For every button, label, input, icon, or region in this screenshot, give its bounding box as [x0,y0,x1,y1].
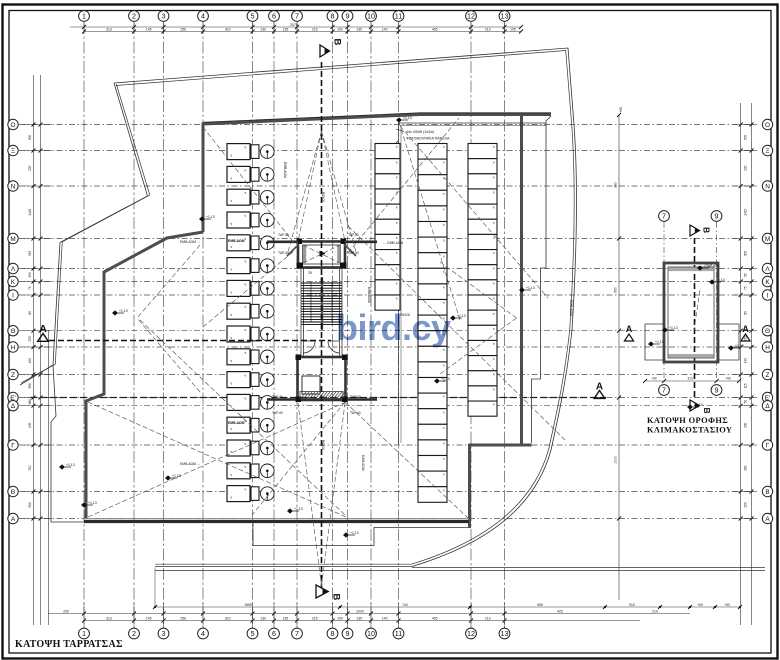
PV panel column C [468,144,497,417]
grid axis E' [8,392,773,402]
small plan drains [648,264,744,351]
svg-text:2000: 2000 [356,609,364,613]
svg-text:145: 145 [146,616,152,620]
small plan grid 9 [711,211,722,396]
PV panel column A [375,144,400,311]
grid axis 7 [292,11,303,639]
svg-text:ΕΜΒ.ΔΩΜ: ΕΜΒ.ΔΩΜ [228,239,245,243]
svg-text:+1.13: +1.13 [119,309,128,313]
svg-text:+90: +90 [725,377,731,381]
svg-text:ΕΜΒ.ΔΩΜ: ΕΜΒ.ΔΩΜ [569,300,573,316]
roof drains [59,116,703,538]
svg-text:+65: +65 [619,107,623,113]
svg-text:305: 305 [744,251,748,257]
svg-text:11: 11 [395,12,402,21]
svg-text:5: 5 [251,12,255,21]
small plan marker A left [624,324,633,341]
svg-text:3: 3 [162,12,166,21]
svg-text:9: 9 [715,388,719,395]
section line B-B vertical [321,62,323,588]
bottom dimension lines [48,603,742,628]
east parapet inner line [532,116,552,443]
svg-text:O: O [765,122,770,129]
svg-text:K: K [765,279,770,286]
svg-text:7: 7 [662,388,666,395]
grid axis 5 [247,11,258,639]
grid axis H [8,342,773,352]
svg-text:50: 50 [744,400,748,404]
svg-text:6: 6 [272,12,276,21]
grid axis 3 [158,11,169,639]
section line A-A horizontal [49,340,331,342]
svg-text:13: 13 [501,629,509,638]
svg-text:405: 405 [432,27,438,31]
svg-text:A: A [626,324,633,334]
svg-text:+1.13: +1.13 [66,463,75,467]
svg-text:200: 200 [63,609,69,613]
grid axis I [8,290,773,300]
svg-text:220: 220 [28,165,32,171]
grid axis M [8,233,773,243]
svg-text:950: 950 [614,287,618,293]
svg-text:680: 680 [28,399,32,405]
small plan marker B top [690,225,712,236]
svg-text:44x 440W (1x2m): 44x 440W (1x2m) [406,130,434,134]
svg-text:135: 135 [356,616,362,620]
svg-text:310: 310 [225,27,231,31]
machine hatch band [300,392,345,399]
svg-text:Ξ: Ξ [11,148,15,155]
grid axis 13 [499,11,510,639]
grid axis 4 [198,11,209,639]
svg-text:← ΕΜΒ.ΔΩΜ: ← ΕΜΒ.ΔΩΜ [383,241,403,245]
svg-text:ΕΜΒ.ΔΩΜ: ΕΜΒ.ΔΩΜ [283,162,287,178]
svg-text:Θ: Θ [765,328,770,335]
svg-text:+1.13: +1.13 [457,314,466,318]
svg-text:7: 7 [295,12,299,21]
svg-text:Λ: Λ [765,266,770,273]
svg-text:Γ: Γ [766,442,770,449]
svg-text:9: 9 [346,629,350,638]
top box pilaster strips [303,246,341,264]
svg-text:500: 500 [28,135,32,141]
small plan inner dash [694,290,700,330]
grid axis Γ [8,440,773,450]
dimension line 1000 right of plan [614,107,624,600]
svg-text:145: 145 [146,27,152,31]
svg-text:740: 740 [402,603,408,607]
lower boundary double line [155,570,765,572]
svg-text:+1.13: +1.13 [88,501,97,505]
lower terrace outline notch [253,521,468,546]
svg-text:213: 213 [485,27,491,31]
svg-text:ΚΛΙΜΑΚΟΣΤΑΣΙΟΥ: ΚΛΙΜΑΚΟΣΤΑΣΙΟΥ [647,426,732,435]
svg-text:+1.13: +1.13 [735,344,744,348]
svg-text:313: 313 [106,616,112,620]
svg-text:ΕΜΒ.ΔΩΜ: ΕΜΒ.ΔΩΜ [367,287,371,303]
svg-text:7: 7 [295,629,299,638]
svg-text:150: 150 [744,502,748,508]
PV field border [399,123,547,445]
grid axis Θ [8,326,773,336]
svg-text:+1.13: +1.13 [294,507,303,511]
svg-text:3: 3 [162,629,166,638]
svg-text:230: 230 [744,422,748,428]
svg-text:+60: +60 [724,603,730,607]
svg-text:140: 140 [382,616,388,620]
svg-text:256: 256 [180,616,186,620]
svg-text:300: 300 [744,465,748,471]
grid axis 12 [466,11,477,639]
svg-text:K: K [11,279,16,286]
building wall west diagonal [104,232,203,272]
svg-text:100: 100 [337,27,343,31]
svg-text:25: 25 [308,271,312,275]
svg-text:ΤΑΡ.40: ΤΑΡ.40 [278,251,289,255]
svg-text:B: B [11,489,15,496]
left dimension lines [24,75,52,625]
svg-text:O: O [11,122,16,129]
stair machine room top box [298,242,345,268]
lower room corner blocks [296,355,348,403]
svg-text:2570: 2570 [290,23,298,27]
grid axis O [8,119,773,129]
svg-text:+1.13: +1.13 [716,278,725,282]
svg-text:350: 350 [28,272,32,278]
svg-text:12: 12 [467,629,475,638]
svg-text:115: 115 [744,383,748,388]
svg-text:ΤΑΡ.40: ΤΑΡ.40 [348,251,359,255]
svg-text:505: 505 [744,135,748,141]
grid axis Ξ [8,145,773,155]
svg-text:N: N [11,183,16,190]
svg-text:B: B [331,594,342,601]
svg-text:1: 1 [82,12,86,21]
svg-text:85: 85 [744,311,748,315]
small plan title [647,416,732,435]
svg-text:9: 9 [346,12,350,21]
svg-text:+90: +90 [651,377,657,381]
grid axis 8 [327,11,338,639]
misc tiny labels [180,162,573,471]
svg-text:A: A [11,516,16,523]
svg-text:N: N [765,183,770,190]
building wall west mid [86,271,104,519]
terrace parapet outline [114,48,576,567]
svg-text:140: 140 [382,27,388,31]
wing wall left of lower room [267,398,296,401]
svg-text:Ξ: Ξ [765,148,769,155]
svg-text:9: 9 [715,214,719,221]
svg-text:500: 500 [28,502,32,508]
svg-text:6: 6 [272,629,276,638]
svg-text:565: 565 [537,603,543,607]
svg-text:+1.13: +1.13 [669,326,678,330]
svg-text:5: 5 [251,629,255,638]
top box corner blocks [297,239,347,269]
svg-text:ΡΑΧΩΙ: ΡΑΧΩΙ [321,192,325,202]
PV label [385,129,450,155]
svg-text:135: 135 [28,422,32,428]
svg-text:2: 2 [132,12,136,21]
svg-text:+1.13: +1.13 [350,531,359,535]
AC unit column [227,144,274,502]
svg-text:+1.13: +1.13 [206,215,215,219]
wing wall right of lower room [347,398,377,401]
svg-text:75: 75 [28,286,32,290]
building wall south (dark) [84,520,469,523]
svg-text:ΚΑΘ.ΔΩΜ: ΚΑΘ.ΔΩΜ [361,455,365,471]
stair door arcs [304,341,340,353]
small plan main walls [664,263,718,362]
svg-text:310: 310 [225,616,231,620]
lower stair room [298,357,346,400]
svg-text:313: 313 [106,27,112,31]
grid axis 9 [342,11,353,639]
svg-text:A: A [742,324,749,334]
svg-text:135: 135 [283,27,289,31]
svg-text:10: 10 [367,12,375,21]
grid axis A [8,513,773,523]
svg-text:1415: 1415 [744,208,748,215]
svg-text:ΚΑΤΟΨΗ ΤΑΡΡΑΤΣΑΣ: ΚΑΤΟΨΗ ΤΑΡΡΑΤΣΑΣ [15,639,123,650]
svg-text:ΤΑΡ.40: ΤΑΡ.40 [278,233,289,237]
svg-text:H: H [11,344,16,351]
svg-text:8: 8 [331,12,335,21]
building wall west upper [202,123,205,233]
grid axis Z [8,369,773,379]
small plan interior hatch bands [669,268,714,358]
small plan grid 7 [659,211,670,396]
svg-text:Z: Z [11,372,15,379]
wing wall left of stair [267,242,299,256]
grid axis 10 [366,11,377,639]
building wall east [520,116,523,445]
section marker B bottom [316,585,342,601]
svg-text:4: 4 [201,12,205,21]
svg-text:1: 1 [82,629,86,638]
svg-text:140: 140 [744,358,748,364]
top box cross dashes [303,245,340,263]
svg-text:Λ: Λ [11,266,16,273]
svg-text:7: 7 [662,214,666,221]
svg-text:256: 256 [180,27,186,31]
section marker A left [38,323,49,341]
svg-text:425: 425 [557,609,563,613]
svg-text:ΕΜΒ.ΔΩΜ →: ΕΜΒ.ΔΩΜ → [180,240,200,244]
section marker B top [320,39,343,58]
svg-text:215: 215 [312,27,318,31]
svg-text:100: 100 [337,616,343,620]
right dimension lines [734,103,757,625]
building wall southeast [468,444,471,528]
grid axis Δ [8,401,773,411]
svg-text:B: B [332,39,343,46]
stair flights [302,277,343,330]
terrace parapet outline lower-left [51,365,56,422]
svg-text:+1.13: +1.13 [441,377,450,381]
svg-text:210: 210 [652,609,658,613]
svg-text:400: 400 [28,358,32,364]
section marker A right (plan) [594,382,605,399]
svg-text:ΤΑΡ.40: ΤΑΡ.40 [350,395,361,399]
svg-text:M: M [765,236,770,243]
svg-text:A: A [765,516,770,523]
svg-text:313: 313 [687,377,693,381]
svg-text:+1.13: +1.13 [655,340,664,344]
slope diagonal lines [88,118,565,586]
svg-text:+1.13: +1.13 [172,474,181,478]
svg-text:85: 85 [744,273,748,277]
small plan marker A right [741,324,750,341]
svg-text:515: 515 [629,603,635,607]
svg-text:130: 130 [260,616,266,620]
small plan section line B [694,238,696,400]
svg-text:1555: 1555 [244,603,252,607]
svg-text:ΤΑΡ.40: ΤΑΡ.40 [348,233,359,237]
grid axis Λ [8,263,773,273]
svg-text:Θ: Θ [11,328,16,335]
small plan left wing [645,324,664,360]
svg-text:bird.cy: bird.cy [336,307,451,348]
grid axis B [8,486,773,496]
svg-text:Z: Z [766,372,770,379]
svg-text:H: H [765,344,770,351]
wing wall right of stair [345,242,378,256]
stair shaft side walls [301,268,342,357]
svg-text:380: 380 [614,182,618,188]
PV panel column B [418,144,447,503]
svg-text:220: 220 [744,165,748,171]
svg-text:M: M [10,236,15,243]
svg-text:Γ: Γ [11,442,15,449]
extension line at col edge [154,568,156,608]
building wall PV south [469,444,532,447]
svg-text:ΤΑΡ.40: ΤΑΡ.40 [350,411,361,415]
grid axis 2 [129,11,140,639]
svg-text:75: 75 [744,286,748,290]
svg-text:4: 4 [201,629,205,638]
svg-text:I: I [767,292,769,299]
svg-text:11: 11 [395,629,402,638]
svg-text:135: 135 [283,616,289,620]
svg-text:233: 233 [28,336,32,342]
svg-text:+ΤΑΡ.40.5: +ΤΑΡ.40.5 [704,264,720,268]
svg-text:315: 315 [28,251,32,257]
svg-text:135: 135 [356,27,362,31]
svg-text:1000: 1000 [614,456,618,464]
svg-text:+1.13: +1.13 [403,116,412,120]
small plan right wing [718,324,739,360]
small plan bottom dims [643,377,741,383]
grid axis 11 [393,11,404,639]
grid axis 1 [79,11,90,639]
elevator box [302,376,320,394]
building wall north [203,115,551,125]
svg-text:405: 405 [432,616,438,620]
grid axis N [8,181,773,191]
svg-text:710: 710 [28,465,32,471]
svg-text:ΚΑΤΟΨΗ ΟΡΟΦΗΣ: ΚΑΤΟΨΗ ΟΡΟΦΗΣ [647,416,728,425]
svg-text:+1.13: +1.13 [526,286,535,290]
svg-text:130: 130 [260,27,266,31]
svg-text:B: B [765,489,769,496]
top dimension lines [70,23,523,34]
small plan marker B bottom [690,400,712,414]
svg-text:B: B [702,227,712,233]
svg-text:B: B [702,408,712,414]
grid axis 6 [269,11,280,639]
svg-text:ΡΑΧΩΙ: ΡΑΧΩΙ [321,440,325,450]
svg-text:ΕΜΒ.ΔΩΜ: ΕΜΒ.ΔΩΜ [228,421,245,425]
svg-text:1445: 1445 [28,208,32,215]
svg-text:105: 105 [510,27,516,31]
svg-text:ΤΑΡ.40: ΤΑΡ.40 [272,411,283,415]
svg-text:Δ: Δ [11,403,16,410]
svg-text:213: 213 [485,616,491,620]
svg-text:2: 2 [132,629,136,638]
svg-text:I: I [12,292,14,299]
terrace parapet outline left side [20,83,148,385]
svg-text:+60: +60 [697,603,703,607]
svg-text:12: 12 [467,12,475,21]
svg-text:ΕΜΒ.ΔΩΜ →: ΕΜΒ.ΔΩΜ → [180,462,200,466]
svg-text:215: 215 [312,616,318,620]
svg-text:10: 10 [367,629,375,638]
svg-text:380: 380 [28,383,32,389]
svg-text:13: 13 [501,12,509,21]
svg-text:85: 85 [28,311,32,315]
grid axis K [8,276,773,286]
svg-text:8: 8 [331,629,335,638]
svg-text:ΤΑΡ.40: ΤΑΡ.40 [272,395,283,399]
svg-text:Δ: Δ [765,403,770,410]
